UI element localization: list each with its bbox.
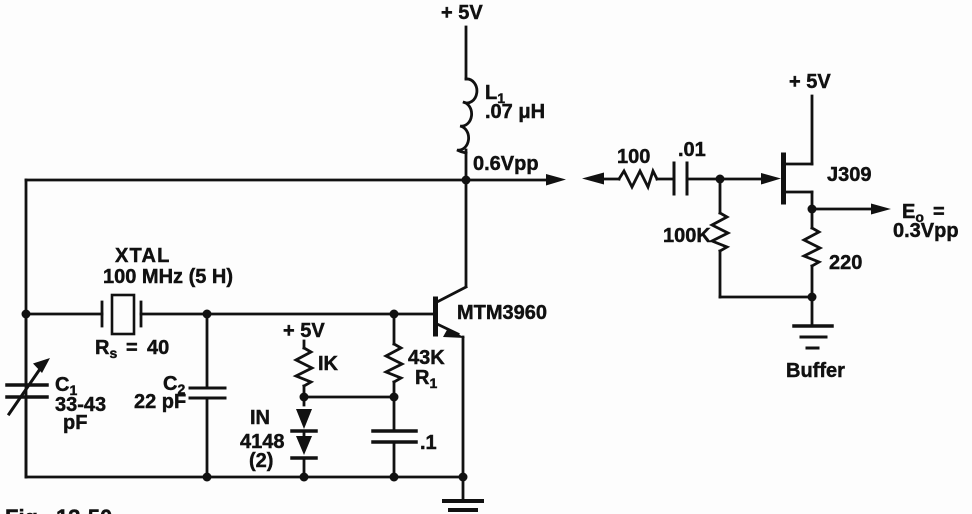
label IN 4148 (2) bbox=[240, 407, 285, 472]
capacitor C1 variable 33-43pF bbox=[7, 314, 106, 477]
node R1 top bbox=[390, 310, 399, 319]
wire 1K to diodes bbox=[303, 386, 306, 405]
svg-text:100 MHz (5 H): 100 MHz (5 H) bbox=[103, 266, 233, 288]
svg-text:XTAL: XTAL bbox=[115, 245, 171, 267]
svg-text:Buffer: Buffer bbox=[786, 360, 845, 382]
svg-text:100: 100 bbox=[617, 146, 650, 168]
wire cap to gate bbox=[687, 178, 765, 181]
node diode bottom bbox=[300, 473, 309, 482]
resistor 100 bbox=[617, 146, 657, 187]
wire buffer input arrow (left) bbox=[582, 173, 619, 185]
node buffer bottom bbox=[808, 293, 817, 302]
svg-text:0.6Vpp: 0.6Vpp bbox=[473, 153, 539, 175]
resistor 100K bbox=[663, 179, 728, 297]
resistor 1K bbox=[296, 348, 339, 386]
capacitor .1 bbox=[373, 397, 437, 477]
node main output 0.6Vpp bbox=[462, 176, 471, 185]
svg-text:J309: J309 bbox=[827, 164, 872, 186]
svg-text:pF: pF bbox=[63, 412, 87, 434]
wire output arrow right bbox=[466, 174, 566, 186]
power +5V supply (oscillator) bbox=[441, 2, 483, 79]
gate arrow into JFET bbox=[761, 173, 781, 185]
wire inductor to node bbox=[465, 150, 468, 180]
capacitor C2 22pF bbox=[134, 314, 225, 477]
crystal XTAL 100MHz bbox=[95, 245, 233, 361]
wire emitter down bbox=[462, 337, 465, 477]
node C2 top bbox=[203, 310, 212, 319]
transistor U1 J309 JFET bbox=[784, 96, 872, 209]
power +5V (bias) bbox=[283, 320, 325, 348]
svg-text:MTM3960: MTM3960 bbox=[457, 302, 547, 324]
wire base rail y=314 bbox=[26, 313, 102, 316]
ground (oscillator) bbox=[444, 477, 482, 510]
svg-text:+ 5V: + 5V bbox=[789, 71, 831, 93]
node emitter bottom bbox=[459, 473, 468, 482]
diode D2 IN4148 bbox=[292, 431, 316, 477]
svg-text:.1: .1 bbox=[420, 432, 437, 454]
svg-text:.01: .01 bbox=[678, 139, 706, 161]
node bias junction bbox=[300, 393, 309, 402]
svg-text:IK: IK bbox=[318, 353, 339, 375]
svg-text:+ 5V: + 5V bbox=[283, 320, 325, 342]
svg-text:+ 5V: + 5V bbox=[441, 2, 483, 24]
svg-text:Rs=40: Rs=40 bbox=[95, 337, 169, 361]
capacitor .01 bbox=[674, 139, 706, 194]
wire left rail bbox=[25, 180, 28, 477]
node left rail / xtal bbox=[22, 310, 31, 319]
svg-text:0.3Vpp: 0.3Vpp bbox=[893, 220, 959, 242]
ground (buffer) bbox=[794, 297, 832, 348]
resistor R1 43K bbox=[386, 314, 445, 397]
wire top horizontal bbox=[26, 179, 466, 182]
wire output Eo arrow bbox=[812, 201, 959, 242]
svg-text:13-50: 13-50 bbox=[56, 505, 112, 514]
wire bias junction to R1 bottom bbox=[304, 396, 394, 399]
resistor 220 bbox=[804, 209, 862, 298]
wire bottom rail bbox=[26, 476, 463, 479]
svg-text:IN: IN bbox=[250, 407, 270, 429]
transistor Q1 MTM3960 bbox=[436, 287, 548, 338]
svg-text:.07 μH: .07 μH bbox=[485, 101, 545, 123]
svg-text:43K: 43K bbox=[408, 347, 445, 369]
wire collector vertical bbox=[465, 180, 468, 286]
wire 100K bottom to source rail bbox=[720, 296, 812, 299]
svg-text:100K: 100K bbox=[663, 225, 711, 247]
svg-text:22 pF: 22 pF bbox=[134, 391, 186, 413]
inductor L1 bbox=[457, 79, 545, 153]
svg-text:(2): (2) bbox=[249, 450, 273, 472]
diode D1 IN4148 bbox=[292, 409, 316, 431]
svg-text:220: 220 bbox=[829, 252, 862, 274]
node gate / 100K bbox=[716, 175, 725, 184]
node cap .1 bottom bbox=[390, 473, 399, 482]
svg-text:Fig.: Fig. bbox=[5, 505, 44, 514]
wire resistor to cap bbox=[657, 178, 674, 181]
svg-text:R1: R1 bbox=[415, 367, 437, 391]
node C2 bottom bbox=[203, 473, 212, 482]
node source bbox=[808, 205, 817, 214]
node R1 bottom bbox=[390, 393, 399, 402]
